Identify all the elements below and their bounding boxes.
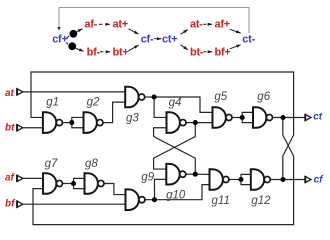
svg-text:cf+: cf+ (52, 34, 67, 46)
svg-text:af-: af- (84, 19, 97, 31)
svg-text:g9: g9 (141, 172, 154, 184)
svg-text:cf-: cf- (141, 34, 154, 46)
svg-text:at: at (5, 88, 15, 99)
svg-text:g5: g5 (214, 91, 227, 103)
svg-text:g8: g8 (85, 158, 98, 170)
svg-text:g3: g3 (126, 113, 139, 125)
svg-text:g4: g4 (169, 97, 182, 109)
svg-text:bt+: bt+ (113, 47, 129, 59)
svg-text:g6: g6 (257, 91, 270, 103)
svg-text:ct: ct (313, 112, 323, 123)
svg-text:g2: g2 (87, 97, 100, 109)
svg-text:bf-: bf- (87, 47, 101, 59)
svg-text:g7: g7 (45, 158, 58, 170)
svg-text:ct+: ct+ (162, 34, 177, 46)
svg-text:g12: g12 (251, 195, 271, 207)
svg-text:g11: g11 (212, 195, 230, 207)
svg-text:bt: bt (5, 123, 15, 134)
svg-text:af+: af+ (215, 19, 230, 31)
svg-text:bt-: bt- (190, 47, 204, 59)
svg-text:g10: g10 (166, 189, 186, 201)
svg-text:g1: g1 (46, 97, 59, 109)
svg-text:at+: at+ (113, 19, 128, 31)
svg-text:at-: at- (190, 19, 203, 31)
svg-text:ct-: ct- (242, 34, 255, 46)
svg-text:bf+: bf+ (215, 47, 231, 59)
svg-text:bf: bf (5, 198, 16, 209)
